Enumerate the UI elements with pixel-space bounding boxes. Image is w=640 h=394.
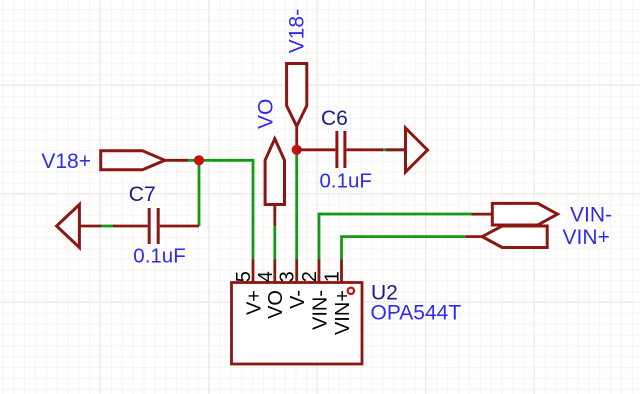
svg-text:V18+: V18+: [41, 150, 91, 173]
op-amp U2 body: [232, 283, 363, 365]
wire V18+ node down to C7: [198, 160, 201, 226]
junction dot V18- node: [292, 145, 302, 155]
value OPA544T: [371, 302, 462, 325]
port flag VIN-: [472, 203, 558, 225]
svg-text:C6: C6: [321, 107, 348, 130]
svg-text:3: 3: [277, 271, 299, 282]
port flag VIN+: [465, 226, 547, 248]
wire C7 left stub: [100, 225, 113, 228]
svg-text:V+: V+: [243, 290, 265, 315]
wire VO flag vertical to pin4: [273, 225, 276, 261]
svg-text:V18-: V18-: [286, 9, 309, 53]
port arrow right: [386, 128, 428, 172]
value 0.1uF (C6): [320, 170, 372, 193]
svg-text:2: 2: [299, 271, 321, 282]
net label VIN+: [563, 226, 610, 249]
pin 1 indicator ring: [348, 288, 354, 294]
svg-text:5: 5: [233, 271, 255, 282]
svg-text:0.1uF: 0.1uF: [133, 245, 185, 268]
svg-text:OPA544T: OPA544T: [371, 302, 462, 325]
svg-text:C7: C7: [129, 183, 156, 206]
port arrow left: [57, 205, 101, 248]
wire C6 right stub: [381, 148, 406, 151]
power flag VO: [265, 139, 284, 226]
reference U2: [371, 282, 398, 305]
wire V18+ node to pin5 horizontal: [187, 159, 253, 162]
wire V18- node down to pin3: [295, 150, 298, 261]
wire VIN+ vertical to pin1: [340, 235, 343, 260]
pin 2 (VIN-): [299, 259, 331, 330]
svg-text:VIN+: VIN+: [332, 290, 354, 335]
net label V18+: [41, 150, 91, 173]
pin 5 (V+): [233, 259, 265, 315]
pin 3 (V-): [277, 259, 309, 309]
svg-text:VIN-: VIN-: [570, 204, 612, 227]
wire VIN- horizontal: [319, 213, 472, 216]
svg-text:VO: VO: [255, 99, 278, 129]
power flag V18-: [287, 64, 307, 151]
svg-text:VIN+: VIN+: [563, 226, 610, 249]
wire pin5 vertical: [252, 159, 255, 261]
net label VIN-: [570, 204, 612, 227]
net label VO: [255, 99, 278, 129]
svg-text:4: 4: [255, 271, 277, 282]
pin 1 (VIN+): [322, 259, 354, 335]
designator C6: [321, 107, 348, 130]
svg-text:0.1uF: 0.1uF: [320, 170, 372, 193]
pin 4 (VO): [255, 259, 287, 319]
capacitor C6: [297, 131, 383, 168]
value 0.1uF (C7): [133, 245, 185, 268]
capacitor C7: [113, 208, 199, 244]
svg-text:VO: VO: [265, 290, 287, 319]
designator C7: [129, 183, 156, 206]
net label V18-: [286, 9, 309, 53]
wire VIN- vertical to pin2: [318, 213, 321, 261]
power flag V18+: [101, 151, 188, 170]
wire VIN+ horizontal: [342, 235, 466, 238]
svg-text:V-: V-: [287, 290, 309, 309]
junction dot V18+ node: [194, 155, 204, 165]
svg-text:VIN-: VIN-: [309, 290, 331, 330]
svg-text:1: 1: [322, 271, 344, 282]
